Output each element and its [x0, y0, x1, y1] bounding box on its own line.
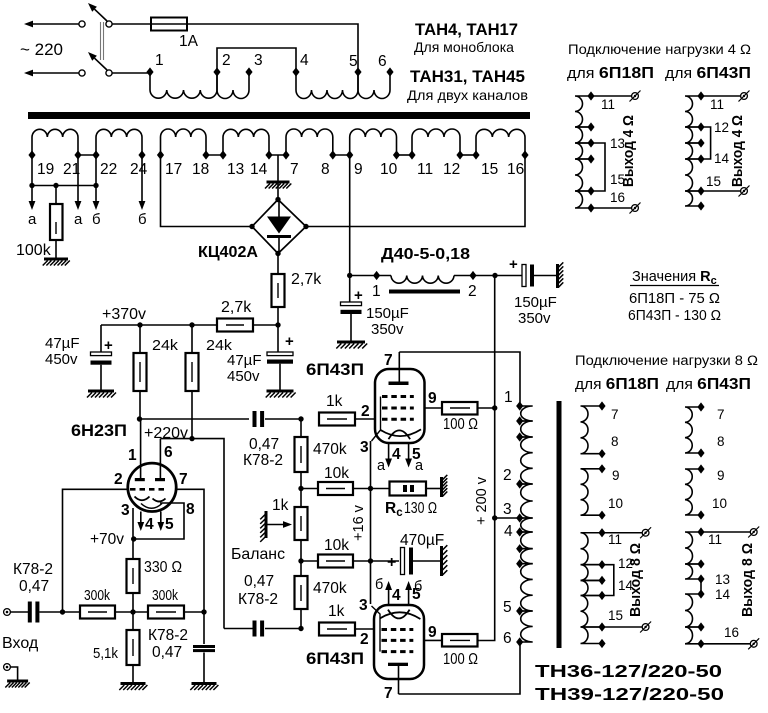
terminal input ground — [4, 664, 11, 671]
wire cap to junction — [265, 628, 301, 630]
svg-text:К78-2: К78-2 — [148, 627, 188, 644]
wire 12-14 link — [602, 565, 614, 596]
svg-text:2,7k: 2,7k — [291, 271, 322, 288]
transformer T2 primary seg 2 — [520, 421, 533, 437]
svg-text:+: + — [285, 333, 294, 350]
tap mid — [516, 416, 523, 425]
svg-text:9: 9 — [354, 161, 363, 178]
heater arc — [141, 504, 162, 509]
wire column top — [300, 419, 302, 437]
transformer T1 secondary winding 11-12 — [412, 129, 460, 155]
winding 4ohm right 15-16 — [685, 191, 701, 206]
svg-text:8: 8 — [611, 434, 619, 449]
resistor 470k #1 — [295, 437, 308, 472]
alt winding 14-16 — [685, 594, 701, 627]
tap 11a — [697, 527, 704, 536]
wire tap15 to output — [602, 626, 642, 628]
terminal switch contact top left — [79, 21, 85, 27]
secondary winding 7-8 — [581, 406, 603, 454]
svg-text:для 6П18П: для 6П18П — [567, 65, 654, 82]
svg-text:3: 3 — [121, 502, 130, 519]
wire — [184, 611, 204, 613]
transformer T1 primary winding 2-3 — [217, 72, 249, 99]
transformer T1 secondary winding 7-8 — [286, 129, 333, 155]
resistor 100 ohm bottom — [442, 634, 478, 647]
wire +220v rail — [140, 418, 250, 420]
svg-text:4: 4 — [392, 446, 401, 463]
ground wall balance — [265, 511, 268, 538]
wire 1k to pin2 bottom — [355, 628, 374, 630]
transformer T2 primary seg 9 — [520, 611, 533, 642]
transformer T1 secondary winding 9-10 — [350, 129, 397, 155]
tap 13a — [697, 574, 704, 583]
svg-text:2: 2 — [468, 283, 477, 300]
svg-text:5: 5 — [503, 599, 512, 616]
capacitor K78-2 0.47 input — [28, 602, 32, 623]
capacitor 0.47 K78-2 bottom coupling — [253, 621, 257, 637]
svg-text:15: 15 — [481, 161, 498, 178]
svg-text:+16 v: +16 v — [351, 504, 367, 541]
tap 10a — [697, 510, 704, 519]
tap 13R — [697, 138, 704, 147]
tap 15s — [598, 622, 605, 631]
tube V2 6P43P envelope — [375, 369, 425, 443]
svg-text:47µF: 47µF — [227, 352, 262, 369]
junction — [137, 416, 142, 421]
heater arrow 5 — [160, 512, 162, 523]
cathode arc — [381, 429, 421, 436]
svg-text:8: 8 — [717, 434, 725, 449]
capacitor 150uF 350v right — [522, 265, 526, 287]
ground wall Rc — [440, 477, 443, 497]
junction — [492, 273, 497, 278]
junction — [53, 183, 58, 188]
tap 12R — [697, 122, 704, 131]
transformer T2 primary seg 1 — [520, 406, 533, 421]
tap 15L — [587, 186, 594, 195]
transformer T1 secondary winding 15-16 — [476, 129, 525, 155]
svg-text:Выход 4 Ω: Выход 4 Ω — [729, 115, 746, 187]
tap 10s — [598, 511, 605, 520]
junction — [60, 609, 65, 614]
pin 7 wire — [176, 489, 204, 612]
svg-text:0,47: 0,47 — [152, 644, 182, 661]
svg-text:б: б — [414, 579, 422, 595]
svg-text:11: 11 — [601, 97, 615, 112]
pin 7 lead bottom — [398, 664, 400, 694]
tap 15 — [472, 150, 479, 159]
alt winding 11-13 — [685, 532, 701, 564]
tap 8a — [697, 448, 704, 457]
svg-text:100 Ω: 100 Ω — [443, 416, 478, 433]
wire choke rail — [350, 275, 391, 277]
svg-text:6: 6 — [164, 444, 173, 461]
junction — [137, 322, 142, 327]
junction — [189, 436, 194, 441]
svg-text:6П43П: 6П43П — [306, 360, 364, 379]
svg-text:1k: 1k — [328, 603, 345, 620]
pin 2 wire — [63, 489, 128, 612]
tap 4 out — [516, 527, 523, 536]
resistor 10k #1 — [301, 488, 318, 490]
wire tap16 to output 4ohm — [591, 207, 632, 209]
tap 10 — [393, 150, 400, 159]
terminal output 8ohm bottom right — [750, 640, 757, 647]
svg-text:150µF: 150µF — [366, 305, 409, 322]
svg-text:150µF: 150µF — [514, 294, 557, 311]
svg-text:5,1k: 5,1k — [93, 646, 119, 662]
transformer T1 secondary winding 19-21 — [32, 129, 78, 155]
secondary winding 9-10 — [581, 469, 603, 515]
svg-text:18: 18 — [192, 161, 209, 178]
svg-text:300k: 300k — [152, 588, 179, 604]
heater arrow 4 — [140, 512, 142, 523]
wire to ground — [10, 667, 17, 681]
svg-text:+: + — [104, 337, 113, 354]
svg-text:0,47: 0,47 — [19, 578, 49, 595]
tap 18 — [202, 150, 209, 159]
svg-text:Для моноблока: Для моноблока — [414, 39, 514, 55]
svg-text:7: 7 — [384, 352, 393, 369]
svg-text:11: 11 — [708, 532, 722, 547]
tap 11s — [598, 528, 605, 537]
tap 2 — [213, 67, 220, 76]
svg-text:а: а — [74, 211, 83, 228]
ground — [121, 682, 146, 685]
terminal output 8ohm top right — [750, 529, 757, 536]
tap 13L — [587, 138, 594, 147]
resistor 330 ohm — [127, 559, 140, 593]
heater arrow 5 up — [408, 590, 410, 605]
cathode arc right — [153, 499, 166, 502]
tap 2 out — [516, 479, 523, 488]
capacitor 470uF cathode bypass — [371, 560, 400, 562]
svg-text:1k: 1k — [326, 393, 343, 410]
fuse F1 1A — [151, 18, 187, 31]
capacitor 47uF 450v left — [100, 325, 102, 352]
tap 5 out — [516, 606, 523, 615]
terminal 4ohm top left — [632, 93, 639, 100]
wire — [353, 560, 371, 562]
terminal switch contact bottom right — [106, 70, 112, 76]
pin 9 wire — [425, 407, 443, 409]
heater dome bottom — [388, 610, 410, 619]
junction — [93, 183, 98, 188]
svg-text:24: 24 — [130, 161, 148, 178]
tap 14s — [598, 591, 605, 600]
tap 6 — [386, 67, 393, 76]
svg-text:6Н23П: 6Н23П — [71, 421, 127, 440]
wire center tap 7 to ground and bridge — [277, 155, 279, 200]
svg-text:К78-2: К78-2 — [13, 561, 53, 578]
tap 7s — [598, 401, 605, 410]
grid row 2 — [382, 639, 414, 642]
wire to cap 150uF right — [495, 275, 522, 277]
svg-text:Вход: Вход — [2, 635, 39, 652]
wire cap to junction — [39, 611, 80, 613]
inductor L1 core — [389, 290, 460, 294]
heater arrow 5 — [408, 443, 410, 459]
svg-text:17: 17 — [165, 161, 182, 178]
svg-text:5: 5 — [349, 53, 358, 70]
svg-text:КЦ402А: КЦ402А — [198, 244, 258, 261]
junction — [189, 322, 194, 327]
winding 4ohm right 13-14 — [685, 143, 701, 159]
tap 14R — [697, 154, 704, 163]
junction — [298, 626, 303, 631]
wire 10k to pin3 column — [353, 488, 371, 490]
pin 6 lead — [159, 439, 161, 480]
resistor 100 ohm top — [442, 402, 478, 415]
bridge rectifier KTs402A — [252, 200, 306, 254]
svg-text:1: 1 — [372, 283, 381, 300]
junction — [130, 609, 135, 614]
svg-text:16: 16 — [724, 625, 739, 640]
tap 7 — [282, 150, 289, 159]
resistor 1k bottom — [319, 623, 355, 636]
tap mid — [516, 432, 523, 441]
winding 4ohm right 14-15 — [685, 159, 701, 191]
junction — [492, 405, 497, 410]
svg-text:6П18П - 75 Ω: 6П18П - 75 Ω — [629, 291, 720, 307]
wire pin7 to output tap 1 — [399, 352, 520, 406]
junction — [347, 273, 352, 278]
wire fuse to tap 5 — [187, 24, 358, 72]
wire pin6 node right then down — [192, 439, 224, 629]
tap 11 — [408, 150, 415, 159]
wire tap11 to output 4ohm — [591, 95, 632, 97]
wire 8-9 — [333, 154, 350, 156]
tap 14L — [587, 154, 594, 163]
svg-text:б: б — [375, 577, 383, 593]
wire input to cap — [10, 611, 28, 613]
ground wall — [556, 264, 559, 288]
wire choke to rail — [454, 275, 473, 277]
junction — [201, 609, 206, 614]
tap 4 — [292, 67, 299, 76]
wire rail to tap3 — [495, 517, 520, 519]
tap 22 — [92, 150, 99, 159]
capacitor 150uF 350v left — [349, 276, 351, 303]
capacitor 47uF 450v right — [277, 325, 279, 352]
ground — [267, 390, 294, 393]
svg-text:6: 6 — [378, 53, 387, 70]
svg-text:100 Ω: 100 Ω — [443, 651, 478, 668]
pin 3 lead — [132, 508, 134, 539]
junction — [298, 558, 303, 563]
svg-text:2: 2 — [222, 52, 231, 69]
svg-text:4: 4 — [300, 52, 309, 69]
svg-text:1k: 1k — [272, 497, 289, 514]
transformer T1 primary winding 5-6 — [358, 72, 390, 99]
pin 9 wire bottom — [424, 639, 442, 641]
svg-text:330 Ω: 330 Ω — [144, 559, 182, 576]
tap 8s — [598, 449, 605, 458]
svg-text:11: 11 — [417, 161, 433, 178]
resistor 10k #2 — [301, 560, 318, 562]
svg-text:300k: 300k — [84, 588, 111, 604]
grid row 3 — [382, 418, 414, 421]
transformer T2 primary seg 7 — [520, 549, 533, 564]
svg-text:10: 10 — [380, 161, 398, 178]
resistor 2.7k vertical — [272, 274, 285, 307]
potentiometer wiper arrow — [266, 524, 283, 526]
svg-text:24k: 24k — [152, 337, 179, 354]
ground center tap — [267, 181, 290, 184]
tap 17 — [157, 150, 164, 159]
tap 12L — [587, 122, 594, 131]
junction — [492, 515, 497, 520]
transformer T2 core — [557, 401, 562, 648]
anode plate left — [135, 478, 145, 481]
svg-text:7: 7 — [717, 407, 725, 422]
grid connect lead bottom — [372, 606, 381, 652]
svg-text:10: 10 — [608, 496, 623, 511]
svg-text:ТН39-127/220-50: ТН39-127/220-50 — [535, 684, 724, 704]
wire AC input top with arrow — [33, 23, 79, 25]
wire tap15 to output 4ohm right — [701, 190, 741, 192]
wire tap 2 to tap 4 bridge link — [217, 48, 296, 72]
terminal switch contact top right — [106, 21, 112, 27]
junction — [29, 183, 34, 188]
wire 14-7 — [269, 154, 286, 156]
svg-text:13: 13 — [715, 572, 730, 587]
svg-text:Подключение нагрузки 4 Ω: Подключение нагрузки 4 Ω — [568, 42, 751, 57]
tap 16s — [598, 639, 605, 648]
svg-text:1: 1 — [504, 389, 513, 406]
wire tap16 to output — [701, 643, 750, 645]
wire tap11 to output 4ohm right — [701, 95, 741, 97]
wire +370v rail right — [253, 324, 278, 326]
wire filament bus — [32, 185, 96, 187]
svg-text:14: 14 — [714, 151, 730, 166]
grid row 3 — [382, 650, 414, 653]
svg-text:15: 15 — [608, 608, 623, 623]
resistor 5.1k — [132, 612, 134, 630]
grid connect lead — [372, 397, 381, 442]
ground — [337, 341, 365, 344]
wire tap11 to output — [701, 531, 750, 533]
svg-text:14: 14 — [715, 587, 731, 602]
wire switch to fuse — [112, 23, 151, 25]
svg-text:6: 6 — [503, 630, 512, 647]
svg-text:3: 3 — [254, 52, 263, 69]
svg-text:б: б — [138, 211, 147, 228]
svg-text:2: 2 — [361, 403, 370, 420]
wire tap21 arrow a2 — [77, 155, 79, 201]
svg-text:а: а — [28, 211, 37, 228]
capacitor K78-2 0.47 cathode — [203, 612, 205, 644]
wire tap24 arrow b2 — [141, 155, 143, 201]
svg-text:б: б — [92, 211, 101, 228]
svg-text:+: + — [509, 256, 518, 273]
svg-text:а: а — [415, 458, 424, 474]
tap 24 — [138, 150, 145, 159]
wire +200v rail — [494, 276, 496, 519]
svg-text:11: 11 — [710, 97, 724, 112]
wire 100ohm to rail — [478, 407, 495, 409]
tap 16R — [697, 201, 704, 210]
transformer T1 primary winding 1-2 — [150, 72, 217, 98]
svg-text:8: 8 — [186, 501, 195, 518]
wire — [115, 611, 148, 613]
wire +200v rail lower — [480, 518, 495, 641]
svg-text:0,47: 0,47 — [244, 573, 274, 590]
heater dome — [389, 430, 411, 439]
svg-text:К78-2: К78-2 — [243, 452, 283, 469]
svg-text:470µF: 470µF — [400, 532, 444, 549]
tap 6 out — [516, 637, 523, 646]
svg-text:16: 16 — [507, 161, 524, 178]
svg-text:ТН36-127/220-50: ТН36-127/220-50 — [535, 661, 722, 681]
transformer T1 core — [28, 112, 530, 119]
anode plate — [388, 663, 408, 666]
tube V3 6P43P envelope — [374, 605, 424, 679]
tap 19 — [28, 150, 35, 159]
wire arrow a1 — [31, 186, 33, 202]
wire +370v rail left — [101, 324, 217, 326]
wire cathode column — [370, 441, 372, 604]
terminal 4ohm bottom left — [632, 205, 639, 212]
capacitor 0.47 K78-2 top coupling — [253, 411, 257, 427]
inductor L1 choke — [391, 276, 454, 284]
wire 24k2 down to pin6 node — [191, 391, 193, 439]
svg-text:Для двух каналов: Для двух каналов — [407, 87, 528, 103]
wire bridge right to tap16 — [306, 155, 525, 227]
terminal 4ohm top right — [741, 93, 748, 100]
tap 1 out — [516, 401, 523, 410]
junction — [275, 322, 280, 327]
svg-text:450v: 450v — [227, 368, 260, 385]
grid dashes — [130, 488, 167, 491]
node 2 — [469, 271, 476, 280]
heater arrow 4 — [388, 443, 390, 459]
tap 7a — [697, 402, 704, 411]
pin 7 lead — [398, 352, 400, 383]
winding 4ohm left 11-12 — [575, 96, 591, 127]
wire — [300, 609, 302, 629]
svg-text:9: 9 — [717, 468, 725, 483]
resistor 470k #2 — [295, 576, 308, 609]
wire 330 to input node — [132, 593, 134, 612]
svg-text:а: а — [377, 458, 386, 474]
tap 21 — [74, 150, 81, 159]
svg-text:11: 11 — [608, 532, 622, 547]
svg-text:2,7k: 2,7k — [221, 299, 252, 316]
svg-text:130 Ω: 130 Ω — [404, 500, 437, 517]
wire 12-14 link right — [701, 127, 711, 159]
junction — [368, 486, 373, 491]
tap 14a — [697, 589, 704, 598]
transformer T2 primary seg 6 — [520, 532, 533, 549]
svg-text:2: 2 — [360, 631, 369, 648]
resistor 300k #2 — [148, 606, 184, 619]
wire 1k to pin2 — [355, 418, 375, 420]
anode plate right — [155, 478, 165, 481]
svg-text:450v: 450v — [45, 351, 78, 368]
wire pin7 bottom to output tap 6 — [399, 642, 521, 694]
pin 8 wire box — [133, 503, 184, 539]
winding 4ohm left 12-13 — [575, 127, 591, 143]
svg-text:+: + — [354, 287, 363, 304]
svg-text:+370v: +370v — [102, 306, 146, 323]
ground — [7, 680, 28, 683]
ground — [192, 682, 217, 685]
svg-text:10: 10 — [712, 496, 727, 511]
potentiometer 1k balance — [295, 507, 308, 540]
tap 8 — [329, 150, 336, 159]
junction — [368, 558, 373, 563]
